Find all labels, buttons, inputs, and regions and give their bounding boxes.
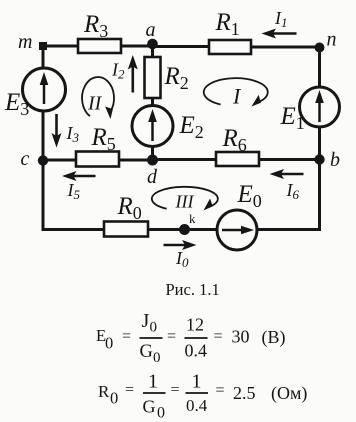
wire d to R6: [153, 158, 217, 161]
equation line 1: E0 = J0/G0 = 12/0.4 = 30 (В): [96, 310, 286, 366]
resistor R0: [104, 193, 148, 237]
resistor R2: [145, 57, 189, 98]
wire R0 to k: [148, 228, 185, 231]
source E3: [4, 68, 66, 119]
svg-text:=: =: [171, 382, 180, 399]
svg-text:b: b: [330, 149, 340, 171]
svg-text:0.4: 0.4: [185, 341, 208, 361]
wire m to R3: [43, 45, 78, 48]
loop II arrow: [82, 77, 114, 119]
svg-text:G: G: [140, 342, 153, 362]
wire R1 to n: [251, 46, 320, 49]
wire E3 to c: [42, 111, 45, 161]
svg-text:1: 1: [192, 371, 202, 393]
wire E2 to d: [151, 147, 154, 161]
svg-text:(Ом): (Ом): [271, 383, 307, 404]
svg-text:0: 0: [150, 320, 158, 336]
svg-text:12: 12: [186, 315, 204, 335]
node n: [315, 29, 337, 53]
resistor R1: [209, 9, 251, 54]
wire n down to E1: [318, 47, 321, 88]
source E0: [217, 181, 262, 250]
svg-text:m: m: [18, 31, 32, 53]
current I0 arrow: [164, 240, 197, 270]
svg-text:30: 30: [232, 327, 250, 347]
node a: [146, 19, 158, 49]
svg-text:J: J: [142, 310, 150, 332]
wire b down to bottom-right corner: [257, 160, 320, 230]
svg-text:II: II: [87, 93, 103, 115]
svg-text:=: =: [214, 328, 223, 345]
wire c down to bottom-left corner: [43, 161, 104, 230]
svg-text:R: R: [98, 382, 110, 401]
wire R3 to a: [121, 45, 153, 48]
svg-text:n: n: [327, 29, 337, 51]
svg-text:=: =: [122, 328, 131, 345]
wire c to R5: [43, 159, 76, 162]
wire a down to R2: [151, 46, 154, 57]
node c: [21, 148, 49, 170]
svg-text:III: III: [175, 192, 195, 212]
svg-text:(В): (В): [262, 327, 286, 348]
svg-text:d: d: [147, 166, 158, 188]
current I6 arrow: [270, 169, 304, 202]
svg-text:=: =: [125, 382, 134, 399]
svg-text:0: 0: [153, 350, 161, 366]
resistor R5: [76, 124, 119, 167]
svg-text:0: 0: [110, 389, 118, 408]
equation line 2: R0 = 1/G0 = 1/0.4 = 2.5 (Ом): [98, 371, 307, 422]
loop III arrow: [152, 187, 218, 212]
svg-text:k: k: [189, 211, 196, 226]
svg-text:=: =: [167, 328, 176, 345]
wire m down to E3: [42, 46, 45, 69]
svg-text:0.4: 0.4: [186, 396, 208, 415]
svg-text:0: 0: [105, 334, 113, 353]
source E1: [280, 87, 340, 133]
node k: [179, 211, 196, 235]
current I3 arrow: [52, 114, 80, 148]
wire R6 to b: [259, 158, 320, 161]
resistor R3: [78, 11, 121, 53]
svg-text:a: a: [146, 19, 156, 41]
node d: [147, 155, 158, 189]
wire R2 to E2: [151, 98, 154, 106]
svg-text:0: 0: [157, 405, 165, 422]
wire R5 to d: [119, 159, 153, 162]
current I5 arrow: [62, 171, 96, 202]
svg-text:Рис. 1.1: Рис. 1.1: [166, 280, 220, 299]
svg-text:G: G: [143, 397, 156, 417]
wire a to R1: [153, 45, 210, 48]
svg-text:2.5: 2.5: [233, 383, 256, 403]
current I1 arrow: [262, 8, 297, 39]
svg-text:c: c: [21, 148, 30, 170]
node m: [18, 31, 47, 53]
loop I arrow: [204, 78, 268, 108]
wire k to E0: [185, 228, 218, 231]
svg-text:1: 1: [148, 371, 158, 393]
source E2: [132, 106, 204, 147]
node b: [314, 149, 340, 171]
resistor R6: [216, 125, 259, 166]
svg-text:=: =: [216, 382, 225, 399]
current I2 arrow: [111, 55, 138, 93]
wire E1 to b: [318, 127, 321, 160]
